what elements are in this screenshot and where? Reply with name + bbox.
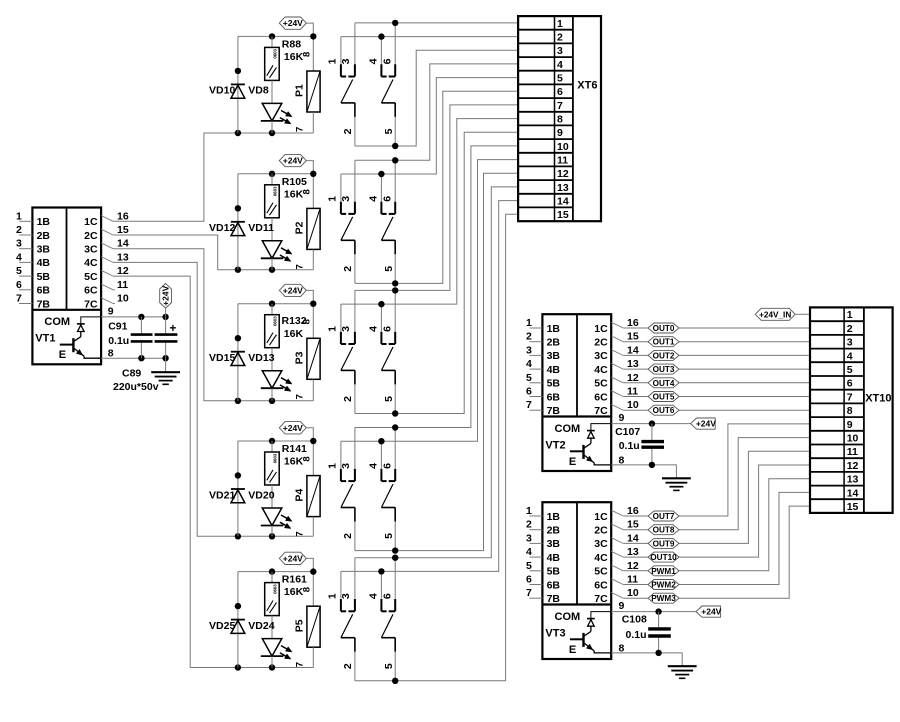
svg-text:4: 4 (368, 196, 380, 202)
svg-text:4B: 4B (37, 257, 51, 269)
svg-text:8: 8 (847, 405, 853, 417)
wire VT1 pin 12 to relay P5 driver rail (113, 276, 313, 671)
diode VD21 (flyback) (209, 441, 245, 536)
svg-text:VT1: VT1 (35, 333, 55, 345)
ground (at C89) (151, 358, 180, 384)
transistor VT1 internal symbol (35, 316, 101, 361)
svg-text:8: 8 (301, 189, 312, 194)
svg-text:7: 7 (526, 399, 532, 411)
svg-text:6: 6 (381, 58, 393, 64)
svg-text:0603: 0603 (272, 49, 277, 59)
svg-text:11: 11 (627, 574, 638, 586)
svg-text:7C: 7C (594, 405, 608, 417)
svg-text:4B: 4B (547, 552, 561, 564)
svg-text:16: 16 (117, 210, 129, 222)
transistor VT3 internal symbol (545, 611, 611, 656)
svg-text:3: 3 (340, 593, 352, 599)
ground (at C108) (668, 666, 697, 678)
svg-text:4: 4 (368, 58, 380, 64)
svg-text:2: 2 (526, 519, 532, 531)
svg-text:15: 15 (117, 224, 129, 236)
LED VD13 (248, 352, 292, 401)
svg-text:7C: 7C (84, 298, 98, 310)
svg-text:+24V_IN: +24V_IN (759, 310, 791, 319)
net label PWM3 (648, 593, 679, 603)
power flag +24V_IN (755, 308, 810, 320)
LED VD11 (248, 222, 292, 270)
svg-text:14: 14 (627, 344, 639, 356)
wire relay P4 contacts 1,4 to XT6 pin 11 (341, 160, 518, 445)
svg-text:4: 4 (368, 463, 380, 469)
svg-text:VT3: VT3 (545, 627, 565, 639)
wire relay P4 contacts 3,6 to XT6 pin 10 (355, 146, 518, 431)
svg-text:13: 13 (117, 251, 129, 263)
svg-text:VD10: VD10 (209, 85, 235, 97)
svg-text:2: 2 (16, 224, 22, 236)
svg-text:6: 6 (526, 386, 532, 398)
svg-text:VD15: VD15 (209, 352, 235, 364)
svg-text:14: 14 (627, 532, 639, 544)
svg-text:14: 14 (557, 196, 569, 208)
IC chip VT3 (ULN2003 driver) (542, 502, 611, 659)
svg-text:VD25: VD25 (209, 620, 235, 632)
net label OUT10 (648, 552, 679, 562)
wire VT1 pin 16 to relay P1 driver rail (113, 130, 313, 222)
svg-text:VD12: VD12 (209, 222, 235, 234)
svg-text:4: 4 (526, 546, 532, 558)
svg-text:0.1u: 0.1u (619, 440, 640, 452)
svg-text:6: 6 (381, 593, 393, 599)
svg-text:R105: R105 (282, 176, 307, 188)
svg-text:7: 7 (294, 127, 305, 132)
svg-text:5: 5 (383, 663, 395, 669)
svg-text:OUT1: OUT1 (653, 338, 675, 347)
svg-text:OUT3: OUT3 (653, 365, 675, 374)
VT3 output pins 16-10 (611, 505, 639, 654)
LED VD24 (248, 620, 292, 668)
diode VD25 (flyback) (209, 572, 245, 668)
wire relay P2 contacts 1,4 to XT6 pin 5 (341, 78, 518, 178)
svg-text:3C: 3C (84, 244, 98, 256)
wire VT2 pin 11 net OUT5 (623, 396, 810, 398)
svg-text:P4: P4 (293, 489, 305, 502)
wire VT2 pin 9 (+24V node) (611, 420, 690, 426)
net label OUT6 (648, 405, 679, 415)
svg-text:7: 7 (16, 293, 22, 305)
svg-text:E: E (59, 349, 66, 361)
svg-text:2B: 2B (37, 230, 51, 242)
relay contacts P3.2 (pins 4,6,5) (368, 290, 396, 413)
svg-text:6C: 6C (594, 391, 608, 403)
svg-text:5B: 5B (547, 378, 561, 390)
svg-text:5B: 5B (547, 566, 561, 578)
svg-text:1C: 1C (594, 323, 608, 335)
svg-text:2: 2 (847, 323, 853, 335)
power flag +24V (relay P3) (279, 284, 313, 338)
svg-text:1: 1 (526, 317, 532, 329)
svg-text:0603: 0603 (272, 584, 277, 594)
wire VT3 pin 16 net OUT7 (623, 424, 810, 516)
diode VD10 (flyback) (209, 36, 245, 133)
svg-text:0603: 0603 (272, 453, 277, 463)
relay contacts P5.2 (pins 4,6,5) (368, 558, 396, 681)
svg-text:1B: 1B (547, 323, 561, 335)
svg-text:9: 9 (619, 412, 625, 424)
svg-text:6: 6 (381, 326, 393, 332)
svg-text:OUT0: OUT0 (653, 324, 675, 333)
svg-text:6C: 6C (84, 285, 98, 297)
svg-text:R141: R141 (282, 443, 307, 455)
svg-text:220u*50v: 220u*50v (113, 381, 159, 393)
VT1 output pins 16-10 (101, 210, 129, 359)
svg-text:3B: 3B (37, 244, 51, 256)
wire +24V top rail (relay P1) (238, 33, 317, 39)
svg-text:VT2: VT2 (545, 439, 565, 451)
wire VT3 pin 10 net PWM3 (623, 506, 810, 598)
svg-text:8: 8 (301, 587, 312, 592)
wire VT1 pin 15 to relay P2 driver rail (113, 235, 313, 273)
svg-text:10: 10 (557, 141, 569, 153)
svg-text:OUT9: OUT9 (653, 539, 675, 548)
svg-text:2: 2 (526, 331, 532, 343)
svg-text:4B: 4B (547, 364, 561, 376)
connector XT10 (810, 307, 893, 513)
svg-text:7: 7 (526, 587, 532, 599)
net label OUT9 (648, 538, 679, 548)
wire relay P2 contacts 2,5 to XT6 pin 6 (355, 91, 518, 286)
svg-text:12: 12 (847, 460, 859, 472)
svg-text:6: 6 (381, 196, 393, 202)
svg-text:7: 7 (847, 391, 853, 403)
svg-text:OUT5: OUT5 (653, 393, 675, 402)
relay contacts P3.1 (pins 1,3,2) (326, 290, 355, 413)
wire relay P4 contacts 2,5 to XT6 pin 12 (355, 173, 518, 554)
wire VT2 pin 10 net OUT6 (623, 409, 810, 411)
svg-text:15: 15 (847, 501, 859, 513)
svg-text:2C: 2C (84, 230, 98, 242)
wire relay P5 contacts 1,4 to XT6 pin 14 (341, 201, 518, 575)
power flag +24V (relay P4) (279, 422, 313, 476)
svg-text:P2: P2 (293, 221, 305, 234)
wire VT2 pin 8 to ground (611, 462, 676, 479)
svg-text:1: 1 (326, 326, 338, 332)
wire VT3 pin 8 to ground (611, 650, 682, 667)
svg-text:2: 2 (342, 396, 354, 402)
net label OUT5 (648, 392, 679, 402)
svg-text:3: 3 (340, 326, 352, 332)
svg-text:8: 8 (301, 456, 312, 461)
svg-text:11: 11 (627, 386, 638, 398)
svg-text:15: 15 (557, 209, 569, 221)
svg-text:XT6: XT6 (577, 80, 597, 92)
svg-text:E: E (569, 456, 576, 468)
svg-text:R161: R161 (282, 574, 307, 586)
svg-text:9: 9 (108, 305, 114, 317)
power flag +24V (relay P1) (279, 17, 313, 71)
svg-text:R88: R88 (282, 38, 301, 50)
wire +24V top rail (relay P4) (238, 438, 317, 444)
wire VT3 pin 12 net PWM1 (623, 479, 810, 571)
svg-text:OUT7: OUT7 (653, 512, 675, 521)
wire VT3 pin 15 net OUT8 (623, 438, 810, 530)
svg-text:3: 3 (340, 196, 352, 202)
svg-text:+24V: +24V (283, 156, 303, 166)
svg-text:8: 8 (557, 114, 563, 126)
svg-text:14: 14 (847, 487, 859, 499)
wire VT3 pin 11 net PWM2 (623, 492, 810, 584)
wire relay P3 contacts 1,4 to XT6 pin 8 (341, 119, 518, 308)
svg-text:4C: 4C (84, 257, 98, 269)
svg-text:C91: C91 (108, 321, 127, 333)
svg-text:2: 2 (342, 128, 354, 134)
svg-text:1: 1 (16, 210, 22, 222)
VT1 input pins 1-7 (16, 210, 32, 304)
svg-text:10: 10 (627, 399, 639, 411)
svg-text:+: + (169, 321, 176, 335)
svg-text:2B: 2B (547, 525, 561, 537)
svg-text:5: 5 (383, 396, 395, 402)
svg-text:1B: 1B (547, 511, 561, 523)
svg-text:0603: 0603 (272, 186, 277, 196)
svg-text:7: 7 (294, 394, 305, 399)
wire relay P5 contacts 3,6 to XT6 pin 13 (355, 187, 518, 561)
IC chip VT1 (ULN2003 driver) (32, 208, 101, 365)
svg-text:E: E (569, 644, 576, 656)
svg-text:3B: 3B (547, 350, 561, 362)
svg-text:1: 1 (557, 18, 563, 30)
wire VT1 pin 14 to relay P3 driver rail (113, 249, 313, 404)
svg-text:7: 7 (294, 531, 305, 536)
svg-text:2C: 2C (594, 525, 608, 537)
svg-text:7B: 7B (547, 405, 561, 417)
svg-text:6B: 6B (547, 391, 561, 403)
power flag +24V (relay P5) (279, 552, 313, 606)
svg-text:+24V: +24V (283, 18, 303, 28)
svg-text:1C: 1C (84, 216, 98, 228)
svg-text:1: 1 (326, 58, 338, 64)
wire VT1 pin 13 to relay P4 driver rail (113, 262, 313, 539)
svg-text:2B: 2B (547, 337, 561, 349)
resistor R132 16K 0603 (265, 304, 307, 371)
svg-text:3C: 3C (594, 538, 608, 550)
capacitor C108 0.1u (622, 612, 671, 653)
svg-text:5: 5 (16, 265, 22, 277)
svg-text:P1: P1 (293, 84, 305, 97)
svg-text:+24V: +24V (283, 553, 303, 563)
wire relay P2 contacts 3,6 to XT6 pin 4 (355, 64, 518, 164)
wire VT2 pin 15 net OUT1 (623, 341, 810, 343)
svg-text:5C: 5C (84, 271, 98, 283)
connector XT6 (518, 16, 601, 221)
svg-text:C108: C108 (622, 613, 647, 625)
svg-text:14: 14 (117, 238, 129, 250)
svg-text:12: 12 (117, 265, 129, 277)
svg-text:7C: 7C (594, 593, 608, 605)
relay contacts P5.1 (pins 1,3,2) (326, 558, 355, 681)
svg-text:16: 16 (627, 505, 639, 517)
net label OUT3 (648, 364, 679, 374)
svg-text:PWM3: PWM3 (651, 594, 676, 603)
svg-text:1: 1 (526, 505, 532, 517)
wire relay P5 contacts 2,5 to XT6 pin 15 (355, 214, 518, 684)
net label OUT0 (648, 323, 679, 333)
svg-text:13: 13 (627, 358, 639, 370)
svg-text:5: 5 (383, 266, 395, 272)
wire relay P3 contacts 3,6 to XT6 pin 7 (355, 105, 518, 294)
svg-text:6B: 6B (37, 285, 51, 297)
svg-text:9: 9 (847, 419, 853, 431)
svg-text:5B: 5B (37, 271, 51, 283)
svg-text:15: 15 (627, 519, 639, 531)
svg-text:10: 10 (117, 293, 129, 305)
svg-text:4: 4 (847, 350, 853, 362)
ground (at C107) (662, 478, 691, 490)
svg-text:VD13: VD13 (248, 352, 274, 364)
svg-text:4: 4 (557, 59, 563, 71)
wire relay P1 contacts 1,4 to XT6 pin 2 (341, 33, 518, 39)
svg-text:OUT4: OUT4 (653, 379, 675, 388)
svg-text:0.1u: 0.1u (108, 335, 129, 347)
VT3 input pins 1-7 (526, 505, 542, 599)
wire relay P3 contacts 2,5 to XT6 pin 9 (355, 132, 518, 416)
svg-text:1C: 1C (594, 511, 608, 523)
svg-text:VD21: VD21 (209, 489, 235, 501)
wire +24V top rail (relay P5) (238, 568, 317, 574)
relay contacts P2.2 (pins 4,6,5) (368, 160, 396, 283)
svg-text:9: 9 (619, 600, 625, 612)
resistor R105 16K 0603 (265, 174, 307, 241)
relay contacts P4.2 (pins 4,6,5) (368, 428, 396, 551)
svg-text:5C: 5C (594, 378, 608, 390)
svg-text:12: 12 (627, 372, 639, 384)
net label PWM1 (648, 566, 679, 576)
svg-text:10: 10 (627, 587, 639, 599)
svg-text:3: 3 (557, 45, 563, 57)
svg-text:VD24: VD24 (248, 620, 274, 632)
svg-text:5: 5 (847, 364, 853, 376)
svg-text:6: 6 (381, 463, 393, 469)
svg-text:12: 12 (627, 560, 639, 572)
svg-text:PWM2: PWM2 (651, 581, 676, 590)
diode VD12 (flyback) (209, 174, 245, 270)
svg-text:P5: P5 (293, 619, 305, 632)
svg-text:4: 4 (16, 251, 22, 263)
svg-text:7: 7 (557, 100, 563, 112)
svg-text:OUT10: OUT10 (650, 553, 677, 562)
svg-text:5C: 5C (594, 566, 608, 578)
wire VT3 pin 9 (+24V node) (611, 608, 696, 614)
svg-text:2: 2 (342, 266, 354, 272)
IC chip VT2 (ULN2003 driver) (542, 314, 611, 471)
net label OUT7 (648, 511, 679, 521)
svg-text:6C: 6C (594, 579, 608, 591)
svg-text:VD11: VD11 (248, 222, 274, 234)
LED VD20 (248, 489, 292, 536)
svg-text:12: 12 (557, 168, 569, 180)
wire VT1 pin 8 (emitter rail) (101, 355, 169, 361)
net label OUT4 (648, 378, 679, 388)
svg-text:P3: P3 (293, 351, 305, 364)
svg-text:+24V: +24V (283, 285, 303, 295)
net label OUT1 (648, 337, 679, 347)
wire +24V top rail (relay P3) (238, 301, 317, 307)
svg-text:COM: COM (555, 611, 581, 623)
svg-text:5: 5 (383, 128, 395, 134)
net label PWM2 (648, 580, 679, 590)
svg-text:11: 11 (117, 279, 128, 291)
svg-text:4: 4 (526, 358, 532, 370)
svg-text:8: 8 (301, 319, 312, 324)
svg-text:OUT6: OUT6 (653, 406, 675, 415)
resistor R88 16K 0603 (265, 36, 304, 103)
svg-text:7B: 7B (547, 593, 561, 605)
relay contacts P4.1 (pins 1,3,2) (326, 428, 355, 551)
svg-text:5: 5 (557, 73, 563, 85)
power flag +24V (relay P2) (279, 154, 313, 208)
svg-text:13: 13 (627, 546, 639, 558)
wire VT1 pin 9 (COM rail) (101, 314, 169, 320)
svg-text:+24V: +24V (161, 285, 171, 305)
capacitor C107 0.1u (615, 424, 664, 465)
resistor R141 16K 0603 (265, 441, 307, 508)
svg-text:0603: 0603 (272, 316, 277, 326)
wire relay P1 contacts 3,6 to XT6 pin 1 (355, 20, 518, 26)
svg-text:13: 13 (557, 182, 569, 194)
svg-text:11: 11 (847, 446, 858, 458)
net label OUT2 (648, 350, 679, 360)
svg-text:3: 3 (526, 344, 532, 356)
svg-text:13: 13 (847, 474, 859, 486)
svg-text:8: 8 (301, 52, 312, 57)
svg-text:6: 6 (557, 86, 563, 98)
wire VT2 pin 12 net OUT4 (623, 382, 810, 384)
svg-text:+24V: +24V (701, 607, 721, 617)
svg-text:3: 3 (16, 238, 22, 250)
relay coil P1 (293, 52, 320, 133)
svg-text:7: 7 (294, 662, 305, 667)
svg-text:4C: 4C (594, 364, 608, 376)
svg-text:VD8: VD8 (248, 85, 269, 97)
svg-text:6: 6 (526, 574, 532, 586)
svg-text:6: 6 (847, 378, 853, 390)
net label OUT8 (648, 525, 679, 535)
svg-text:C89: C89 (122, 367, 141, 379)
wire +24V top rail (relay P2) (238, 171, 317, 177)
VT2 output pins 16-10 (611, 317, 639, 466)
wire VT2 pin 13 net OUT3 (623, 368, 810, 370)
svg-text:15: 15 (627, 331, 639, 343)
wire VT3 pin 14 net OUT9 (623, 451, 810, 543)
svg-text:6B: 6B (547, 579, 561, 591)
relay coil P4 (293, 456, 320, 536)
relay contacts P2.1 (pins 1,3,2) (326, 160, 355, 283)
svg-text:6: 6 (16, 279, 22, 291)
svg-text:PWM1: PWM1 (651, 567, 676, 576)
wire VT2 pin 16 net OUT0 (623, 327, 810, 329)
svg-text:1: 1 (326, 463, 338, 469)
svg-text:OUT2: OUT2 (653, 351, 675, 360)
relay coil P5 (293, 587, 320, 668)
svg-text:0.1u: 0.1u (626, 629, 647, 641)
svg-text:3: 3 (847, 337, 853, 349)
relay contacts P1.1 (pins 1,3,2) (326, 23, 355, 146)
svg-text:3: 3 (526, 532, 532, 544)
relay coil P3 (293, 319, 320, 401)
diode VD15 (flyback) (209, 304, 245, 401)
svg-text:2: 2 (342, 663, 354, 669)
power flag +24V (at C108) (696, 606, 722, 617)
wire relay P1 contacts 2,5 to XT6 pin 3 (355, 50, 518, 149)
